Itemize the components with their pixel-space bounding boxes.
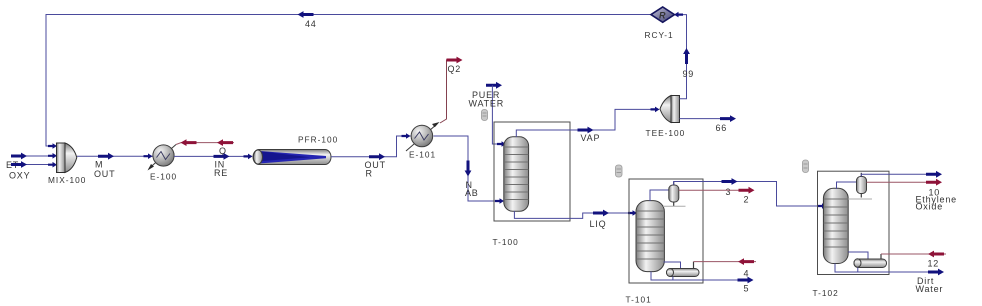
tee TEE-100 (660, 96, 680, 123)
svg-text:Oxide: Oxide (916, 202, 944, 212)
port arrow into RCY-1 (674, 12, 683, 18)
stream arrow IN AB down (465, 161, 472, 177)
port arrow into E-101 (402, 133, 411, 139)
heat exchanger E-100 (148, 145, 177, 171)
svg-text:OUT: OUT (94, 169, 115, 179)
wire stream ET (11, 155, 56, 157)
wire stream 3 (674, 182, 825, 207)
stream arrow 3 (722, 178, 738, 185)
svg-text:OXY: OXY (9, 171, 30, 181)
svg-text:3: 3 (726, 187, 732, 197)
svg-text:5: 5 (744, 284, 750, 294)
status badge T-101 (616, 165, 623, 177)
port arrow into PFR-100 (244, 154, 253, 160)
svg-text:Water: Water (916, 284, 944, 294)
stream arrow 44 (298, 11, 314, 18)
wire energy stream 10b (867, 181, 927, 183)
status badge T-102 (803, 160, 809, 173)
subflowsheet border T-100 (494, 122, 570, 221)
subflowsheet border T-101 (629, 179, 703, 283)
wire stream 99 (676, 15, 687, 99)
wire energy stream 2 (679, 189, 740, 191)
wire stream 44 recycle top (46, 15, 651, 147)
subflowsheet border T-102 (818, 171, 890, 274)
stream arrow M OUT (98, 153, 114, 160)
energy arrow Q2 (447, 57, 463, 64)
stream arrow PUER WATER (486, 82, 502, 89)
wire energy stream 4 (694, 261, 757, 263)
svg-text:RE: RE (214, 168, 228, 178)
svg-text:T-102: T-102 (813, 288, 839, 298)
port arrow into T-102 column (818, 203, 827, 209)
wire stream 10 (861, 174, 926, 176)
stream arrow VAP (578, 127, 594, 134)
wire column top to condenser T-102 (837, 182, 858, 189)
energy arrow Q outer (217, 139, 233, 146)
stream arrow 10 (926, 171, 942, 178)
svg-text:RCY-1: RCY-1 (645, 30, 674, 40)
svg-text:LIQ: LIQ (590, 219, 607, 229)
stream arrow 5 (738, 277, 754, 284)
svg-text:2: 2 (744, 195, 750, 205)
condenser T-101 (669, 185, 679, 202)
svg-text:E-101: E-101 (409, 150, 436, 160)
port arrow into T-100 column (495, 198, 504, 204)
svg-text:PFR-100: PFR-100 (298, 135, 338, 145)
svg-text:MIX-100: MIX-100 (48, 175, 86, 185)
svg-text:M: M (95, 160, 103, 170)
reflux line T-101 (663, 205, 686, 207)
port arrow into TEE-100 (651, 107, 660, 113)
reflux line T-102 (848, 198, 872, 200)
wire stream PUER WATER (492, 85, 498, 144)
wire stream VAP (516, 109, 653, 137)
svg-text:T-101: T-101 (626, 295, 652, 305)
wire column bottom to reboiler T-102 (848, 252, 868, 259)
reboiler T-101 (667, 262, 700, 277)
svg-text:R: R (659, 11, 666, 21)
stream arrow Dirt Water (928, 269, 944, 276)
wire stream 66 (680, 118, 723, 120)
wire stream IN RE (174, 155, 252, 157)
port arrow into T-101 column (628, 210, 637, 216)
column T-100 (504, 137, 529, 212)
recycle RCY-1 (651, 7, 675, 22)
svg-text:44: 44 (305, 19, 317, 29)
stream arrow OXY (11, 161, 27, 168)
condenser T-102 (857, 177, 867, 194)
wire stream LIQ (514, 211, 629, 218)
wire stream to absorber IN AB (434, 136, 504, 201)
svg-text:Q2: Q2 (448, 64, 462, 74)
svg-text:66: 66 (716, 123, 728, 133)
port arrow into E-100 (144, 153, 153, 159)
energy arrow Q inner (181, 139, 197, 146)
svg-text:E-100: E-100 (150, 172, 177, 182)
svg-text:99: 99 (683, 69, 695, 79)
wire stream Dirt Water (835, 264, 928, 273)
wire energy stream Q2 (440, 60, 447, 123)
wire stream 5 (651, 272, 738, 281)
svg-text:R: R (366, 169, 373, 179)
energy arrow 12 (928, 251, 944, 258)
reactor PFR-100 (253, 150, 331, 165)
column T-102 (823, 188, 848, 263)
svg-text:TEE-100: TEE-100 (646, 128, 686, 138)
stream arrow 66 (720, 115, 736, 122)
mixer MIX-100 (57, 143, 77, 173)
stream arrow OUT R (369, 153, 385, 160)
status badge T-100 (482, 110, 488, 121)
wire column top to condenser T-101 (650, 190, 669, 201)
energy arrow 2 (739, 187, 755, 194)
heat exchanger E-101 (406, 122, 440, 151)
wire stream M OUT (77, 155, 153, 157)
column T-101 (636, 201, 664, 272)
stream arrow LIQ (593, 210, 609, 217)
svg-text:AB: AB (465, 188, 479, 198)
svg-text:12: 12 (928, 259, 940, 269)
wire stream OXY (11, 164, 56, 166)
wire energy stream 12 (881, 253, 946, 255)
port arrow into mixer top (48, 143, 57, 149)
svg-text:VAP: VAP (581, 133, 601, 143)
wire column bottom to reboiler T-101 (664, 262, 681, 269)
stream arrow IN RE (214, 153, 230, 160)
svg-text:WATER: WATER (469, 99, 505, 109)
stream arrow 99 up (683, 48, 690, 64)
energy arrow 4 (738, 258, 754, 265)
stream arrow ET (11, 153, 27, 160)
port arrow into mixer mid (48, 153, 57, 159)
reboiler T-102 (854, 254, 887, 268)
svg-text:4: 4 (744, 269, 750, 279)
energy arrow 10b (926, 179, 942, 186)
svg-text:T-100: T-100 (493, 237, 519, 247)
port arrow into mixer bottom (48, 162, 57, 168)
wire energy stream Q (176, 143, 234, 145)
port arrow into T-100 top (497, 141, 506, 147)
wire stream OUT R (331, 136, 411, 157)
